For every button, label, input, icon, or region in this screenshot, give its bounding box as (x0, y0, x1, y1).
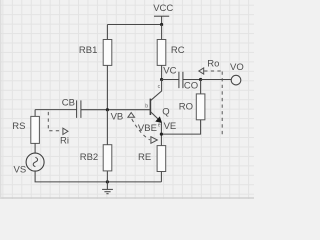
svg-text:RS: RS (12, 121, 25, 132)
svg-text:CB: CB (62, 97, 75, 108)
VCC terminal tick (154, 15, 169, 17)
ground (102, 182, 113, 194)
svg-text:VE: VE (164, 121, 177, 132)
resistor RE (157, 146, 166, 172)
wire RC bottom (161, 65, 163, 79)
wire CO to output node (183, 79, 201, 81)
terminal VO (231, 75, 241, 85)
svg-text:e: e (158, 123, 161, 129)
wire output node to RO (200, 80, 202, 94)
svg-text:VBE: VBE (138, 123, 157, 134)
svg-text:VO: VO (230, 62, 244, 73)
transistor Q (145, 80, 169, 129)
wire RB2 bottom (106, 171, 108, 182)
wire RB2 top (106, 110, 108, 145)
svg-text:RB2: RB2 (80, 152, 98, 163)
svg-text:Ro: Ro (207, 59, 219, 70)
wire VC to CO (162, 79, 179, 81)
measurement arrow Ri (48, 112, 69, 146)
svg-text:VCC: VCC (153, 3, 173, 14)
page edge bottom (0, 197, 254, 199)
resistor RS (31, 116, 40, 143)
page edge left (0, 0, 2, 199)
resistor RB1 (103, 40, 112, 66)
svg-text:b: b (145, 103, 148, 109)
wire RS to CB (35, 109, 77, 111)
wire RB1 bottom (106, 65, 108, 109)
measurement arrow VBE (128, 113, 157, 144)
wire VCC stub (161, 16, 163, 24)
source VS (26, 153, 44, 171)
svg-text:VS: VS (14, 165, 27, 176)
node VC (160, 78, 163, 81)
resistor RC (157, 40, 166, 66)
svg-text:VC: VC (163, 66, 176, 77)
svg-text:RC: RC (171, 45, 185, 56)
wire VS bottom (35, 171, 161, 182)
node ground junction (106, 180, 109, 183)
svg-text:VB: VB (111, 112, 124, 123)
capacitor CO (179, 72, 183, 88)
wire RC top (161, 25, 163, 40)
svg-text:RE: RE (138, 152, 151, 163)
svg-text:Q: Q (162, 107, 169, 118)
node VB (106, 108, 109, 111)
node VCC junction (160, 23, 163, 26)
wire RB1 top (106, 25, 108, 40)
wire top rail (107, 24, 161, 26)
resistor RB2 (103, 145, 112, 171)
wire RS top (34, 110, 36, 117)
resistor RO (196, 94, 205, 120)
capacitor CB (77, 100, 81, 118)
node VE (160, 133, 163, 136)
svg-text:RO: RO (179, 102, 193, 113)
wire RS to VS (34, 143, 36, 153)
wire RO bottom (161, 120, 200, 134)
svg-text:RB1: RB1 (79, 45, 97, 56)
wire emitter down (160, 122, 162, 146)
svg-text:CO: CO (184, 81, 198, 92)
wire output node to VO (201, 79, 232, 81)
wire base (81, 109, 150, 111)
node output junction (199, 78, 202, 81)
svg-text:Ri: Ri (60, 135, 69, 146)
wire RE bottom (160, 172, 162, 182)
